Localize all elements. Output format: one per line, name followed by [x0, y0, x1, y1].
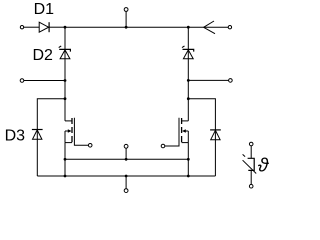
- junction (65,159): [64, 158, 67, 161]
- Q2 body/source tail: [187, 131, 189, 143]
- wire T6 to rail: [125, 148, 127, 159]
- junction (65,176): [64, 175, 67, 178]
- wire Q2 source down: [187, 143, 189, 176]
- terminal T2 top-middle: [124, 8, 128, 12]
- wire node A to node B: [65, 26, 126, 28]
- node C junction (188,27): [187, 26, 190, 29]
- junction (126,176): [125, 175, 128, 178]
- junction (65,99): [64, 97, 67, 100]
- Q1 gate bar and lead: [74, 118, 88, 146]
- junction (126,159): [125, 158, 128, 161]
- junction (65,80): [64, 79, 67, 82]
- terminal T1 top-left: [20, 26, 23, 29]
- thermal bottom lead: [250, 170, 252, 184]
- Q1 source stub: [65, 142, 72, 144]
- terminal T4 left: [20, 79, 24, 83]
- svg-text:ϑ: ϑ: [258, 155, 270, 177]
- svg-text:D2: D2: [33, 47, 54, 64]
- zener diode D4 (right): [182, 46, 194, 59]
- diode D3: [32, 130, 43, 140]
- terminal T5 right: [229, 79, 233, 83]
- wire T2 down to node B: [125, 12, 127, 28]
- wire T7 up to rail: [125, 176, 127, 189]
- wire node C to terminal T3: [188, 26, 228, 28]
- thermal body: [248, 158, 255, 170]
- thermal bottom terminal: [249, 184, 253, 188]
- junction (188,176): [187, 175, 190, 178]
- arrow (pointing left on wire): [204, 21, 215, 34]
- junction (188,99): [187, 97, 190, 100]
- wire left column upper (node A down to Q1 drain): [64, 27, 66, 121]
- wire lower rail: [37, 175, 215, 177]
- junction (188,80): [187, 79, 190, 82]
- Q2 gate bar and lead: [165, 118, 179, 146]
- thermal diagonal: [243, 160, 257, 173]
- wire node B to node C: [126, 26, 188, 28]
- wire branch to D3: [37, 99, 65, 176]
- transistor Q1 (left MOSFET): [65, 118, 88, 146]
- wire D1 cathode to node A: [49, 26, 65, 28]
- wire branch to D5: [188, 99, 215, 176]
- svg-text:D3: D3: [5, 128, 26, 145]
- wire Q1 source down: [64, 143, 66, 176]
- Q1 channel segments: [71, 118, 73, 124]
- wire upper source rail: [65, 158, 188, 160]
- diode D1: [39, 22, 49, 32]
- terminal G1 (left gate): [88, 144, 92, 148]
- junction (188,159): [187, 158, 190, 161]
- terminal T3 top-right: [228, 26, 231, 29]
- Q2 channel segments: [181, 118, 183, 124]
- wire T1 to D1 anode: [24, 26, 39, 28]
- node B junction (126,27): [125, 26, 128, 29]
- wire right column to T5: [188, 79, 228, 81]
- node A junction (65,27): [64, 26, 67, 29]
- wire right column upper (node C down to Q2 drain): [187, 27, 189, 121]
- Q2 body arrow: [184, 130, 188, 132]
- thermal sensor (temperature switch): [243, 142, 257, 188]
- terminal T6 middle (above rail): [124, 144, 128, 148]
- Q2 source stub: [182, 142, 189, 144]
- svg-text:D1: D1: [34, 1, 55, 18]
- Q1 body/source tail: [64, 131, 66, 143]
- Q1 drain stub: [65, 120, 72, 122]
- Q1 body arrow: [65, 130, 69, 132]
- thermal top terminal: [249, 142, 253, 146]
- thermal top lead: [250, 146, 252, 158]
- terminal T7 bottom-middle: [124, 189, 128, 193]
- Q2 drain stub: [182, 120, 189, 122]
- diode D5 (right): [210, 130, 221, 140]
- wire T4 to left column: [24, 80, 65, 82]
- terminal G2 (right gate): [161, 144, 165, 148]
- thermal tick: [243, 154, 246, 156]
- zener diode D2: [59, 46, 71, 59]
- transistor Q2 (right MOSFET): [165, 118, 189, 146]
